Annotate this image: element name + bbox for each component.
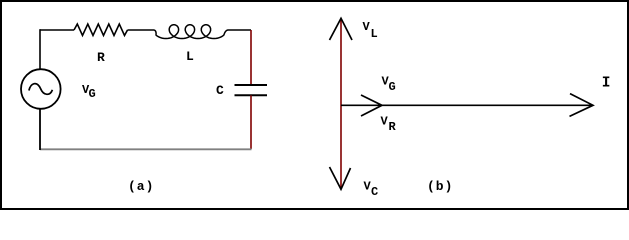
svg-text:R: R bbox=[97, 50, 105, 65]
arrowhead mid VG/VR bbox=[361, 95, 382, 116]
wire right vertical top (maroon) bbox=[250, 30, 252, 85]
capacitor C plates bbox=[235, 85, 268, 95]
source sine wave bbox=[29, 84, 53, 95]
svg-text:(b): (b) bbox=[427, 179, 453, 194]
resistor R bbox=[74, 24, 128, 36]
svg-text:I: I bbox=[602, 75, 611, 91]
svg-text:(a): (a) bbox=[128, 179, 154, 194]
wire left vertical upper bbox=[39, 29, 41, 69]
svg-text:V: V bbox=[363, 20, 371, 34]
svg-text:L: L bbox=[371, 27, 378, 41]
svg-text:C: C bbox=[371, 185, 378, 199]
svg-text:R: R bbox=[389, 120, 397, 134]
inductor L bbox=[128, 25, 252, 39]
svg-text:C: C bbox=[216, 83, 224, 98]
wire top-left horizontal bbox=[40, 29, 74, 31]
arrowhead right I bbox=[570, 94, 594, 117]
svg-text:G: G bbox=[89, 87, 96, 101]
source circle U1 bbox=[21, 69, 61, 109]
arrowhead down VC bbox=[330, 167, 351, 189]
phasor horizontal line I bbox=[341, 104, 593, 106]
wire left vertical lower bbox=[39, 109, 41, 151]
arrowhead up VL bbox=[330, 18, 353, 40]
wire right vertical bottom (maroon) bbox=[250, 95, 252, 149]
svg-text:G: G bbox=[389, 80, 396, 94]
svg-text:L: L bbox=[186, 49, 194, 64]
wire bottom (gray) bbox=[40, 148, 252, 150]
svg-text:V: V bbox=[381, 114, 389, 128]
phasor vertical axis (maroon) bbox=[340, 19, 342, 189]
